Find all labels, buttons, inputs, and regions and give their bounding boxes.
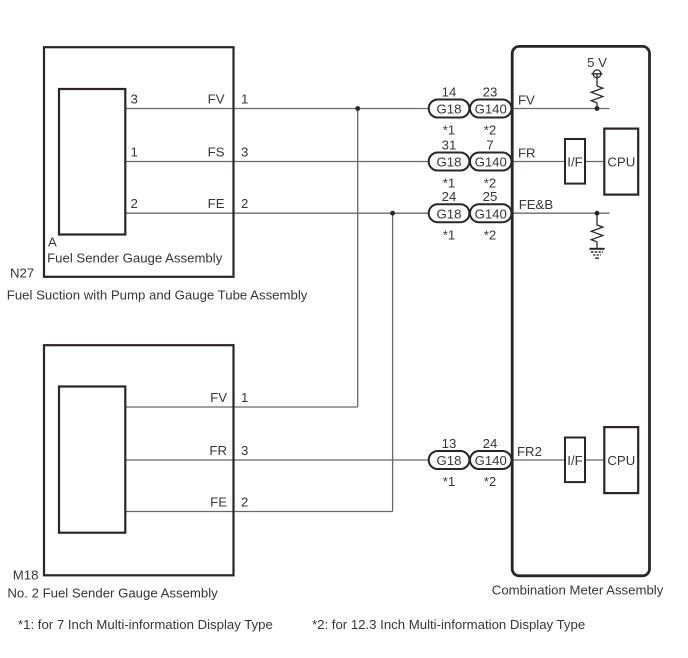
svg-text:G18: G18 bbox=[437, 453, 462, 468]
CPU block (bottom) bbox=[604, 427, 638, 493]
svg-text:3: 3 bbox=[241, 443, 248, 458]
wire FS from N27 sender to connector G18 bbox=[125, 161, 429, 163]
wire FE from N27 sender to connector G18 bbox=[125, 212, 429, 214]
interface block I/F (top) bbox=[565, 139, 585, 184]
wire FV inside combination meter bbox=[512, 108, 610, 110]
svg-text:FR: FR bbox=[209, 443, 227, 458]
wire FE&B node to resistor bbox=[596, 213, 598, 225]
svg-text:1: 1 bbox=[241, 91, 248, 106]
wire I/F to CPU top bbox=[585, 161, 604, 163]
svg-text:FV: FV bbox=[208, 91, 225, 106]
svg-text:23: 23 bbox=[483, 84, 498, 99]
svg-text:G140: G140 bbox=[475, 453, 507, 468]
svg-text:*2: for 12.3 Inch Multi-inform: *2: for 12.3 Inch Multi-information Disp… bbox=[312, 617, 585, 632]
svg-text:CPU: CPU bbox=[607, 453, 635, 468]
component box Combination Meter Assembly bbox=[512, 46, 649, 575]
svg-text:*2: *2 bbox=[484, 474, 496, 489]
interface block I/F (bottom) bbox=[565, 438, 585, 483]
connector G140 pin 25 (FE row) bbox=[470, 189, 512, 242]
svg-text:FV: FV bbox=[518, 93, 535, 108]
wire FV from N27 sender to connector G18 bbox=[125, 108, 429, 110]
svg-text:G18: G18 bbox=[437, 102, 462, 117]
svg-text:Combination Meter Assembly: Combination Meter Assembly bbox=[492, 583, 664, 598]
svg-text:FE: FE bbox=[208, 196, 225, 211]
svg-text:*1: *1 bbox=[443, 123, 455, 138]
ground bbox=[589, 249, 604, 258]
svg-text:2: 2 bbox=[241, 196, 248, 211]
wire FV from M18 sender bbox=[125, 406, 357, 408]
svg-text:Fuel Suction with Pump and Gau: Fuel Suction with Pump and Gauge Tube As… bbox=[7, 287, 308, 302]
svg-text:3: 3 bbox=[131, 91, 138, 106]
junction dot FV pull-up bbox=[595, 106, 600, 111]
wire vertical FV link M18 to N27 FV net bbox=[357, 109, 359, 408]
svg-text:A: A bbox=[48, 235, 57, 250]
wire I/F to CPU bottom bbox=[585, 459, 604, 461]
connector G18 pin 24 (FE row) bbox=[429, 189, 470, 242]
svg-text:G140: G140 bbox=[475, 155, 507, 170]
component box M18 No. 2 Fuel Sender Gauge Assembly bbox=[44, 345, 234, 575]
svg-text:14: 14 bbox=[442, 84, 457, 99]
svg-text:24: 24 bbox=[483, 436, 498, 451]
svg-text:FE: FE bbox=[210, 494, 227, 509]
svg-text:24: 24 bbox=[442, 189, 457, 204]
component box M18 sender element (inner) bbox=[59, 387, 125, 533]
connector G140 pin 24 (FR2 row) bbox=[470, 436, 512, 489]
svg-text:*1: *1 bbox=[443, 227, 455, 242]
svg-text:G18: G18 bbox=[437, 155, 462, 170]
svg-text:FS: FS bbox=[208, 144, 225, 159]
junction dot FE&B pull-down bbox=[595, 211, 600, 216]
svg-text:7: 7 bbox=[486, 137, 493, 152]
svg-text:31: 31 bbox=[442, 137, 457, 152]
wire FR2 from border to I/F bbox=[512, 459, 565, 461]
connector G140 pin 23 (FV row) bbox=[470, 84, 512, 137]
connector G140 pin 7 (FS/FR row) bbox=[470, 137, 512, 190]
svg-text:G140: G140 bbox=[475, 206, 507, 221]
connector G18 pin 31 (FS/FR row) bbox=[429, 137, 470, 190]
component box N27 Fuel Suction with Pump and Gauge Tube Assembly bbox=[44, 47, 234, 277]
svg-text:2: 2 bbox=[131, 196, 138, 211]
svg-text:1: 1 bbox=[131, 144, 138, 159]
svg-text:FE&B: FE&B bbox=[519, 197, 554, 212]
component box A fuel sender gauge (inner) bbox=[59, 89, 125, 235]
svg-text:3: 3 bbox=[241, 144, 248, 159]
svg-text:*1: *1 bbox=[443, 474, 455, 489]
wire FE from M18 sender bbox=[125, 511, 392, 513]
svg-text:G140: G140 bbox=[475, 102, 507, 117]
svg-text:CPU: CPU bbox=[607, 155, 635, 170]
svg-text:M18: M18 bbox=[13, 568, 39, 583]
power terminal 5V bbox=[591, 70, 602, 78]
svg-text:N27: N27 bbox=[10, 266, 34, 281]
svg-text:FR2: FR2 bbox=[517, 444, 542, 459]
connector G18 pin 14 (FV row) bbox=[429, 84, 470, 137]
svg-text:FR: FR bbox=[518, 146, 536, 161]
svg-text:Fuel Sender Gauge Assembly: Fuel Sender Gauge Assembly bbox=[47, 251, 223, 266]
wire 5V terminal to resistor bbox=[596, 74, 598, 86]
svg-text:*2: *2 bbox=[484, 123, 496, 138]
svg-text:*2: *2 bbox=[484, 227, 496, 242]
wire vertical FE link M18 to FE&B net bbox=[392, 213, 394, 511]
svg-text:G18: G18 bbox=[437, 206, 462, 221]
svg-text:I/F: I/F bbox=[567, 155, 582, 170]
junction dot FE&B net bbox=[390, 211, 395, 216]
connector G18 pin 13 (FR2 row) bbox=[429, 436, 470, 489]
svg-text:FV: FV bbox=[210, 390, 227, 405]
resistor pull-up (5V to FV) bbox=[591, 86, 603, 103]
svg-text:*1: for 7 Inch Multi-informati: *1: for 7 Inch Multi-information Display… bbox=[18, 617, 273, 632]
wire FE&B inside combination meter bbox=[512, 212, 610, 214]
svg-text:1: 1 bbox=[241, 390, 248, 405]
svg-text:2: 2 bbox=[241, 494, 248, 509]
wire FR from M18 sender to connector G18 bbox=[125, 459, 429, 461]
svg-text:5 V: 5 V bbox=[587, 55, 607, 70]
junction dot FV net bbox=[355, 106, 360, 111]
CPU block (top) bbox=[604, 129, 638, 195]
svg-text:I/F: I/F bbox=[567, 453, 582, 468]
wire FR from border to I/F bbox=[512, 161, 565, 163]
svg-text:No. 2 Fuel Sender Gauge Assemb: No. 2 Fuel Sender Gauge Assembly bbox=[7, 586, 218, 601]
wire resistor to FV node bbox=[596, 103, 598, 109]
svg-text:13: 13 bbox=[442, 436, 457, 451]
resistor pull-down (FE&B to ground) bbox=[591, 225, 603, 242]
svg-text:25: 25 bbox=[483, 189, 498, 204]
wire resistor to ground bbox=[596, 242, 598, 248]
